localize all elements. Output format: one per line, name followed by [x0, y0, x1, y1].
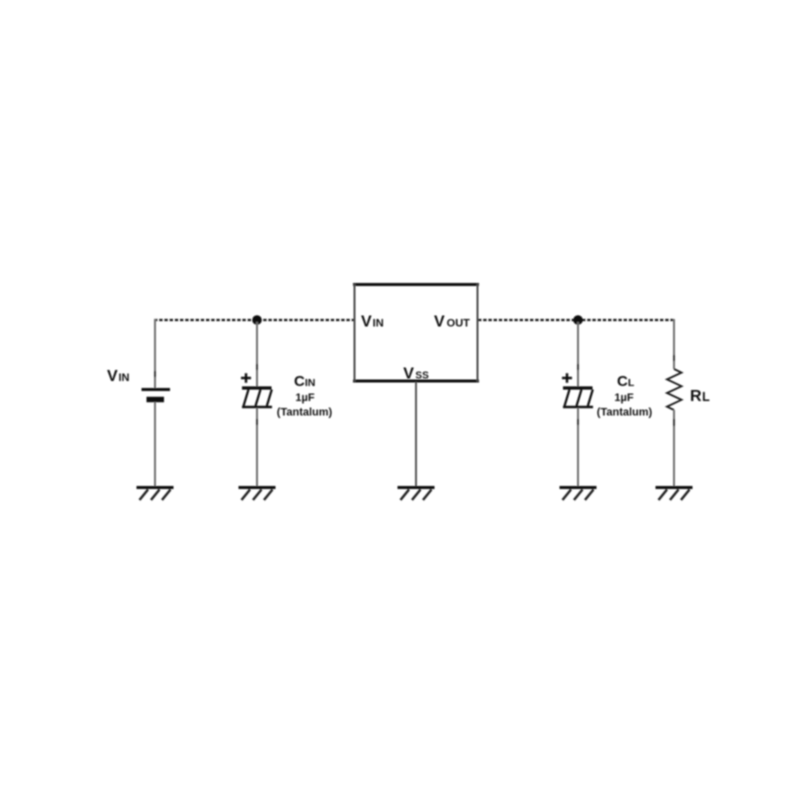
wire: battery branch upper segment: [154, 319, 156, 388]
label CIN value: [277, 373, 333, 419]
regulator U1 (voltage regulator box): [353, 284, 479, 382]
resistor RL: [667, 369, 682, 410]
wire: CL branch lower segment: [577, 408, 579, 487]
wire: CL branch upper segment: [577, 322, 579, 387]
svg-text:VIN: VIN: [361, 314, 384, 331]
svg-text:CIN: CIN: [294, 373, 315, 390]
node: junction of output bus and CL: [573, 315, 583, 325]
ground: CL: [560, 488, 597, 501]
wire: CIN branch upper segment: [256, 322, 258, 387]
svg-text:1µF: 1µF: [295, 392, 314, 404]
svg-text:(Tantalum): (Tantalum): [277, 407, 333, 419]
capacitor CL (polarized tantalum): [562, 373, 593, 407]
svg-text:RL: RL: [690, 388, 710, 405]
svg-text:VIN: VIN: [107, 368, 130, 385]
ground: load resistor: [656, 488, 693, 501]
wire: load branch lower segment: [673, 410, 675, 487]
wire: battery branch lower segment: [154, 402, 156, 487]
battery VIN source: [142, 390, 171, 400]
ground: CIN: [239, 488, 276, 501]
svg-text:1µF: 1µF: [614, 392, 633, 404]
wire: VSS to ground: [415, 382, 417, 487]
ground: battery: [137, 488, 174, 501]
svg-text:(Tantalum): (Tantalum): [597, 407, 653, 419]
wire: CIN branch lower segment: [256, 408, 258, 487]
wire: load branch upper segment: [673, 319, 675, 369]
svg-text:VSS: VSS: [403, 366, 429, 383]
label CL value: [597, 373, 653, 419]
node: junction of input bus and CIN: [252, 315, 262, 325]
wire: top dashed bus, battery to regulator VIN: [154, 319, 354, 321]
svg-text:CL: CL: [617, 373, 635, 390]
ground: VSS: [398, 488, 435, 501]
svg-text:VOUT: VOUT: [434, 314, 470, 331]
wire: top dashed bus, regulator VOUT to load: [478, 319, 675, 321]
capacitor CIN (polarized tantalum): [241, 373, 272, 407]
